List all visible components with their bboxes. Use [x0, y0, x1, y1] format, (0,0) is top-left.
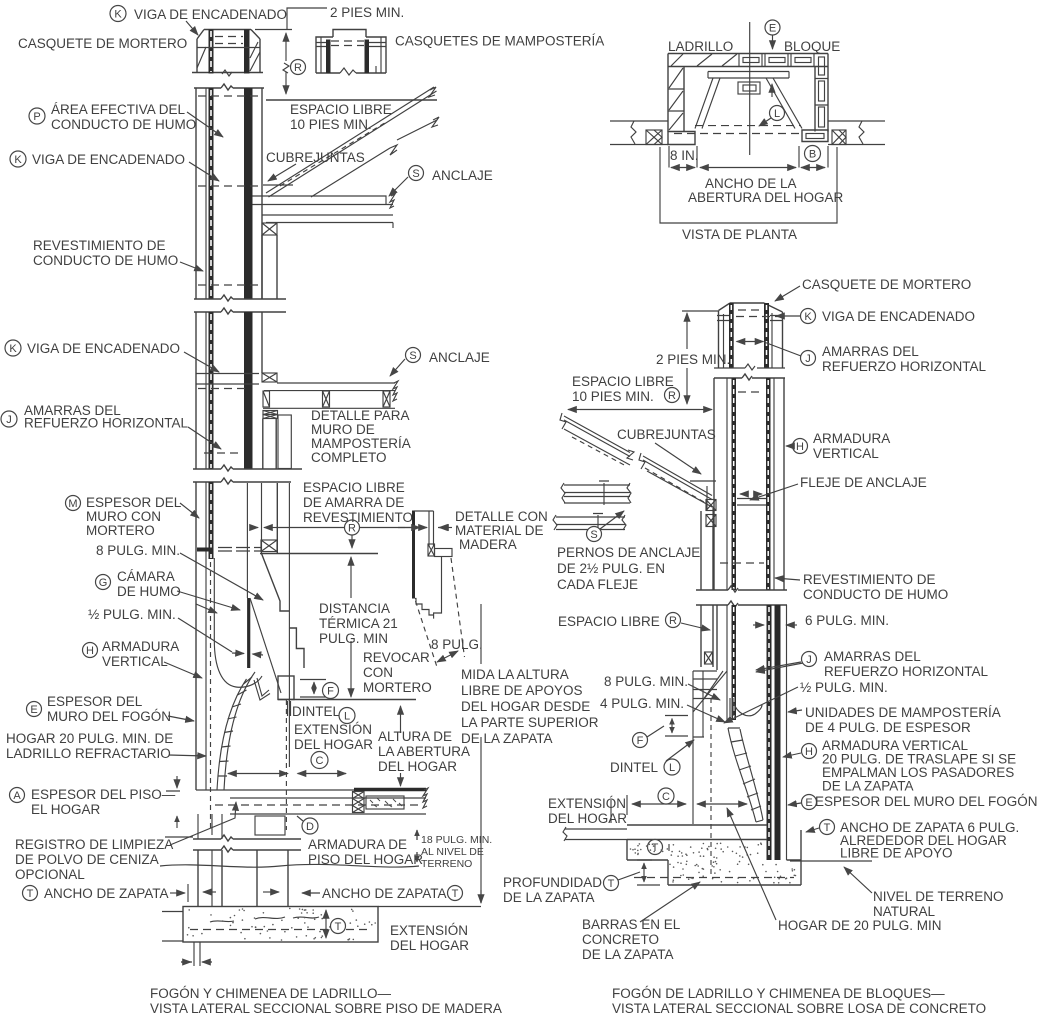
svg-text:LIBRE DE APOYOS: LIBRE DE APOYOS	[461, 683, 583, 698]
svg-text:TERRENO: TERRENO	[421, 858, 472, 870]
svg-text:E: E	[769, 23, 776, 35]
svg-text:ESPACIO LIBRE: ESPACIO LIBRE	[572, 374, 674, 389]
svg-text:P: P	[33, 111, 40, 123]
svg-text:J: J	[805, 353, 811, 365]
svg-text:AMARRAS DEL: AMARRAS DEL	[824, 649, 921, 664]
svg-text:2 PIES MIN.: 2 PIES MIN.	[656, 352, 730, 367]
svg-text:PROFUNDIDAD: PROFUNDIDAD	[503, 875, 602, 890]
svg-text:EXTENSIÓN: EXTENSIÓN	[294, 722, 372, 737]
svg-text:DE HUMO: DE HUMO	[117, 584, 181, 599]
svg-text:H: H	[86, 645, 94, 657]
svg-text:DE LA ZAPATA: DE LA ZAPATA	[822, 779, 914, 794]
svg-text:ANCHO DE ZAPATA: ANCHO DE ZAPATA	[44, 886, 169, 901]
svg-text:8 IN.: 8 IN.	[670, 148, 699, 163]
svg-text:MATERIAL DE: MATERIAL DE	[455, 523, 544, 538]
svg-text:REVESTIMIENTO: REVESTIMIENTO	[303, 510, 413, 525]
svg-text:DETALLE PARA: DETALLE PARA	[311, 408, 410, 423]
svg-text:CONDUCTO DE HUMO: CONDUCTO DE HUMO	[803, 587, 948, 602]
svg-text:PULG. MIN: PULG. MIN	[319, 631, 388, 646]
svg-text:ARMADURA: ARMADURA	[813, 431, 890, 446]
svg-text:S: S	[412, 168, 419, 180]
svg-text:R: R	[669, 615, 677, 627]
svg-text:ANCHO DE ZAPATA: ANCHO DE ZAPATA	[322, 886, 447, 901]
svg-text:K: K	[114, 9, 122, 21]
svg-text:K: K	[804, 311, 812, 323]
svg-text:DEL HOGAR DESDE: DEL HOGAR DESDE	[461, 699, 590, 714]
svg-text:DE LA ZAPATA: DE LA ZAPATA	[582, 947, 674, 962]
svg-text:REGISTRO DE LIMPIEZA: REGISTRO DE LIMPIEZA	[15, 837, 173, 852]
svg-text:J: J	[6, 414, 12, 426]
svg-text:MORTERO: MORTERO	[363, 680, 432, 695]
svg-text:CASQUETE DE MORTERO: CASQUETE DE MORTERO	[18, 36, 187, 51]
svg-text:ESPESOR DEL: ESPESOR DEL	[47, 694, 143, 709]
svg-text:ARMADURA: ARMADURA	[102, 639, 179, 654]
svg-text:10 PIES MIN.: 10 PIES MIN.	[290, 117, 372, 132]
svg-text:REFUERZO HORIZONTAL: REFUERZO HORIZONTAL	[24, 416, 188, 431]
svg-text:VIGA DE ENCADENADO: VIGA DE ENCADENADO	[134, 7, 287, 22]
svg-text:DINTEL: DINTEL	[292, 704, 341, 719]
svg-text:ESPACIO LIBRE: ESPACIO LIBRE	[303, 480, 405, 495]
svg-text:ANCLAJE: ANCLAJE	[432, 168, 493, 183]
svg-text:ESPACIO LIBRE: ESPACIO LIBRE	[290, 102, 392, 117]
svg-text:TÉRMICA 21: TÉRMICA 21	[319, 616, 398, 631]
svg-text:VISTA LATERAL SECCIONAL SOBRE: VISTA LATERAL SECCIONAL SOBRE PISO DE MA…	[150, 1001, 502, 1016]
svg-text:L: L	[669, 762, 675, 774]
svg-text:BLOQUE: BLOQUE	[784, 39, 840, 54]
svg-text:VIGA DE ENCADENADO: VIGA DE ENCADENADO	[27, 341, 180, 356]
svg-text:C: C	[316, 755, 324, 767]
svg-text:CUBREJUNTAS: CUBREJUNTAS	[266, 150, 365, 165]
svg-text:DINTEL: DINTEL	[610, 760, 659, 775]
svg-text:DE 4 PULG. DE ESPESOR: DE 4 PULG. DE ESPESOR	[805, 720, 971, 735]
svg-text:H: H	[796, 441, 804, 453]
svg-text:PERNOS DE ANCLAJE: PERNOS DE ANCLAJE	[557, 545, 700, 560]
svg-text:ABERTURA DEL HOGAR: ABERTURA DEL HOGAR	[688, 190, 844, 205]
svg-text:MURO CON: MURO CON	[86, 509, 161, 524]
svg-text:4 PULG. MIN.: 4 PULG. MIN.	[600, 696, 684, 711]
svg-text:DEL HOGAR: DEL HOGAR	[378, 759, 457, 774]
svg-text:L: L	[774, 108, 780, 120]
svg-text:ESPESOR DEL MURO DEL FOGÓN: ESPESOR DEL MURO DEL FOGÓN	[815, 794, 1038, 809]
svg-text:8 PULG. MIN.: 8 PULG. MIN.	[96, 543, 180, 558]
svg-text:LIBRE DE APOYO: LIBRE DE APOYO	[840, 846, 953, 861]
svg-text:DEL HOGAR: DEL HOGAR	[390, 938, 469, 953]
svg-text:AMARRAS DEL: AMARRAS DEL	[822, 344, 919, 359]
svg-text:FLEJE DE ANCLAJE: FLEJE DE ANCLAJE	[800, 475, 927, 490]
svg-text:EXTENSIÓN: EXTENSIÓN	[390, 923, 468, 938]
svg-text:S: S	[590, 529, 597, 541]
svg-text:D: D	[306, 821, 314, 833]
svg-text:CADA FLEJE: CADA FLEJE	[557, 577, 638, 592]
svg-text:ESPESOR DEL PISO—: ESPESOR DEL PISO—	[31, 787, 176, 802]
svg-text:REVOCAR: REVOCAR	[363, 650, 430, 665]
svg-text:M: M	[68, 498, 77, 510]
svg-text:VISTA DE PLANTA: VISTA DE PLANTA	[682, 227, 797, 242]
svg-text:E: E	[805, 797, 812, 809]
svg-text:CUBREJUNTAS: CUBREJUNTAS	[617, 427, 716, 442]
svg-text:A: A	[13, 790, 21, 802]
svg-text:6 PULG. MIN.: 6 PULG. MIN.	[805, 613, 889, 628]
svg-text:K: K	[9, 343, 17, 355]
svg-text:10 PIES MIN.: 10 PIES MIN.	[572, 389, 654, 404]
svg-text:REVESTIMIENTO DE: REVESTIMIENTO DE	[33, 238, 166, 253]
svg-text:LA PARTE SUPERIOR: LA PARTE SUPERIOR	[461, 715, 599, 730]
svg-text:AL NIVEL DE: AL NIVEL DE	[421, 846, 484, 858]
svg-text:DE AMARRA DE: DE AMARRA DE	[303, 495, 404, 510]
svg-text:R: R	[294, 62, 302, 74]
svg-text:T: T	[452, 888, 459, 900]
svg-text:COMPLETO: COMPLETO	[311, 450, 387, 465]
svg-text:REVESTIMIENTO DE: REVESTIMIENTO DE	[803, 572, 936, 587]
svg-text:ESPESOR DEL: ESPESOR DEL	[86, 495, 182, 510]
svg-text:VIGA DE ENCADENADO: VIGA DE ENCADENADO	[822, 309, 975, 324]
svg-text:NATURAL: NATURAL	[873, 904, 936, 919]
svg-text:MURO DE: MURO DE	[311, 422, 375, 437]
svg-text:CASQUETE DE MORTERO: CASQUETE DE MORTERO	[802, 277, 971, 292]
svg-text:½ PULG. MIN.: ½ PULG. MIN.	[800, 680, 888, 695]
svg-text:CASQUETES DE MAMPOSTERÍA: CASQUETES DE MAMPOSTERÍA	[395, 34, 604, 49]
svg-text:C: C	[662, 791, 670, 803]
svg-text:FOGÓN DE LADRILLO Y CHIMENEA D: FOGÓN DE LADRILLO Y CHIMENEA DE BLOQUES—	[612, 986, 945, 1001]
svg-text:CON: CON	[363, 665, 393, 680]
svg-text:R: R	[668, 390, 676, 402]
svg-text:MURO DEL FOGÓN: MURO DEL FOGÓN	[47, 709, 171, 724]
svg-text:DEL HOGAR: DEL HOGAR	[294, 737, 373, 752]
svg-text:HOGAR 20 PULG. MIN. DE: HOGAR 20 PULG. MIN. DE	[6, 731, 173, 746]
svg-text:OPCIONAL: OPCIONAL	[15, 867, 85, 882]
svg-text:VERTICAL: VERTICAL	[102, 654, 168, 669]
svg-text:CONDUCTO DE HUMO: CONDUCTO DE HUMO	[51, 117, 196, 132]
svg-text:CÁMARA: CÁMARA	[117, 569, 175, 584]
svg-text:DETALLE CON: DETALLE CON	[455, 509, 548, 524]
svg-text:DEL HOGAR: DEL HOGAR	[548, 811, 627, 826]
svg-text:2 PIES MIN.: 2 PIES MIN.	[330, 5, 404, 20]
svg-text:MAMPOSTERÍA: MAMPOSTERÍA	[311, 436, 411, 451]
svg-text:DE LA ZAPATA: DE LA ZAPATA	[461, 731, 553, 746]
svg-text:MIDA LA ALTURA: MIDA LA ALTURA	[461, 667, 569, 682]
svg-text:HOGAR DE 20 PULG. MIN: HOGAR DE 20 PULG. MIN	[778, 918, 942, 933]
svg-text:T: T	[608, 878, 615, 890]
svg-text:PISO DEL HOGAR: PISO DEL HOGAR	[308, 852, 423, 867]
svg-text:EXTENSIÓN: EXTENSIÓN	[548, 796, 626, 811]
svg-text:B: B	[809, 149, 816, 161]
svg-text:DE 2½ PULG. EN: DE 2½ PULG. EN	[557, 561, 665, 576]
svg-text:NIVEL DE TERRENO: NIVEL DE TERRENO	[873, 889, 1004, 904]
svg-text:ARMADURA DE: ARMADURA DE	[308, 837, 407, 852]
svg-text:F: F	[637, 735, 644, 747]
svg-text:½ PULG. MIN.: ½ PULG. MIN.	[88, 607, 176, 622]
svg-text:MADERA: MADERA	[459, 537, 517, 552]
svg-text:T: T	[824, 822, 831, 834]
svg-text:MORTERO: MORTERO	[86, 523, 155, 538]
svg-text:REFUERZO HORIZONTAL: REFUERZO HORIZONTAL	[822, 359, 986, 374]
svg-text:DE POLVO DE CENIZA: DE POLVO DE CENIZA	[15, 852, 159, 867]
svg-text:J: J	[806, 654, 812, 666]
svg-text:ANCHO DE LA: ANCHO DE LA	[705, 176, 797, 191]
svg-text:L: L	[344, 711, 350, 723]
svg-text:T: T	[335, 921, 342, 933]
svg-text:LADRILLO REFRACTARIO: LADRILLO REFRACTARIO	[6, 746, 171, 761]
svg-text:EL HOGAR: EL HOGAR	[31, 802, 101, 817]
svg-text:DE LA ZAPATA: DE LA ZAPATA	[503, 890, 595, 905]
svg-text:8 PULG. MIN.: 8 PULG. MIN.	[604, 674, 688, 689]
svg-text:VISTA LATERAL SECCIONAL SOBRE: VISTA LATERAL SECCIONAL SOBRE LOSA DE CO…	[612, 1001, 986, 1016]
svg-text:CONDUCTO DE HUMO: CONDUCTO DE HUMO	[33, 253, 178, 268]
svg-text:LADRILLO: LADRILLO	[668, 39, 733, 54]
svg-text:FOGÓN Y CHIMENEA DE LADRILLO—: FOGÓN Y CHIMENEA DE LADRILLO—	[150, 986, 392, 1001]
svg-text:ÁREA EFECTIVA DEL: ÁREA EFECTIVA DEL	[51, 102, 186, 117]
svg-text:ALTURA DE: ALTURA DE	[378, 729, 452, 744]
svg-text:VERTICAL: VERTICAL	[813, 446, 879, 461]
svg-text:E: E	[30, 704, 37, 716]
svg-text:BARRAS EN EL: BARRAS EN EL	[582, 917, 681, 932]
svg-text:UNIDADES DE MAMPOSTERÍA: UNIDADES DE MAMPOSTERÍA	[805, 705, 1001, 720]
svg-text:S: S	[409, 350, 416, 362]
svg-text:K: K	[14, 154, 22, 166]
svg-text:G: G	[99, 577, 108, 589]
svg-text:LA ABERTURA: LA ABERTURA	[378, 744, 470, 759]
svg-text:T: T	[27, 888, 34, 900]
svg-text:DISTANCIA: DISTANCIA	[319, 601, 390, 616]
svg-text:F: F	[327, 686, 334, 698]
svg-text:ESPACIO LIBRE: ESPACIO LIBRE	[558, 614, 660, 629]
svg-text:ANCLAJE: ANCLAJE	[429, 350, 490, 365]
svg-text:VIGA DE ENCADENADO: VIGA DE ENCADENADO	[32, 152, 185, 167]
svg-text:H: H	[805, 746, 813, 758]
svg-text:REFUERZO HORIZONTAL: REFUERZO HORIZONTAL	[824, 664, 988, 679]
svg-text:CONCRETO: CONCRETO	[582, 932, 659, 947]
svg-text:8 PULG.: 8 PULG.	[431, 637, 483, 652]
